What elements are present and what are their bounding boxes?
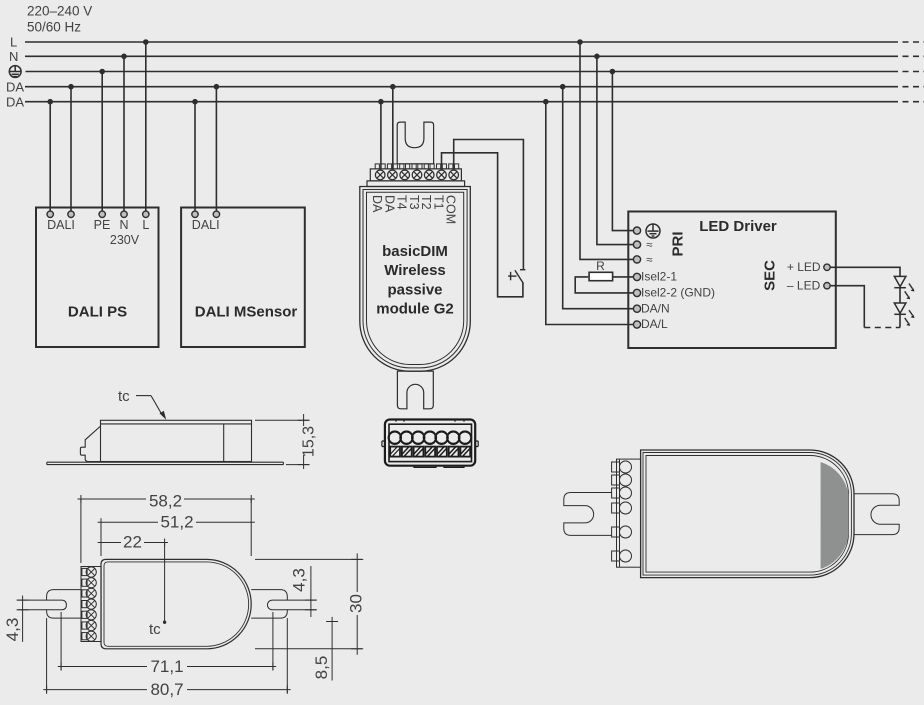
driver terminal labels — [641, 270, 715, 332]
svg-text:71,1: 71,1 — [150, 657, 183, 676]
junction dot — [99, 69, 105, 75]
perspective view body — [641, 450, 854, 578]
dimension 8,5 — [312, 617, 338, 681]
junction dot — [68, 84, 74, 90]
svg-text:51,2: 51,2 — [160, 513, 193, 532]
tc arrow — [136, 396, 166, 420]
wire bus L — [25, 41, 924, 43]
pushbutton S — [508, 270, 525, 284]
junction dot — [192, 99, 198, 105]
PE earth symbol — [9, 66, 22, 78]
perspective terminal block — [617, 459, 641, 567]
top view terminal block — [81, 567, 101, 642]
module top mounting tab — [397, 122, 433, 164]
svg-text:Isel2-1: Isel2-1 — [641, 270, 677, 284]
module terminal block — [367, 169, 465, 187]
svg-text:L: L — [142, 218, 149, 232]
DALI MSensor box — [181, 208, 305, 348]
svg-text:PE: PE — [94, 218, 111, 232]
svg-text:+ LED: + LED — [787, 260, 821, 274]
top view body — [101, 559, 251, 648]
junction dot — [610, 69, 616, 75]
svg-text:15,3: 15,3 — [301, 426, 318, 457]
svg-text:4,3: 4,3 — [3, 618, 22, 642]
svg-text:tc: tc — [149, 621, 161, 638]
svg-text:58,2: 58,2 — [149, 491, 182, 510]
svg-text:Wireless: Wireless — [384, 262, 446, 279]
perspective left tab — [564, 493, 612, 536]
svg-text:4,3: 4,3 — [289, 568, 308, 592]
side view left cap — [80, 426, 100, 462]
svg-text:T3: T3 — [407, 195, 421, 210]
LED D2 — [894, 303, 914, 326]
svg-text:DALI PS: DALI PS — [68, 304, 127, 321]
junction dot — [390, 84, 396, 90]
driver output terminals — [824, 264, 830, 289]
wire led2 down — [899, 314, 901, 327]
svg-text:DA: DA — [370, 195, 384, 213]
module body basicDIM — [360, 187, 471, 372]
svg-text:DALI MSensor: DALI MSensor — [195, 304, 298, 321]
LED D1 — [894, 276, 914, 299]
svg-text:R: R — [596, 259, 605, 273]
resistor R — [575, 259, 633, 293]
svg-text:230V: 230V — [110, 233, 140, 247]
perspective shaded end — [821, 462, 849, 569]
wire module T1 to switch — [442, 153, 523, 297]
dimension 80,7 — [43, 618, 290, 699]
driver terminals — [633, 227, 640, 328]
wire DALI PS N to bus N — [123, 56, 125, 211]
driver LED output labels — [787, 260, 821, 292]
svg-text:220–240 V: 220–240 V — [27, 4, 92, 19]
wire bus PE — [26, 71, 924, 73]
wire bus N to driver N — [597, 56, 634, 244]
wire bus DA2 — [25, 101, 924, 103]
wire module COM to switch — [454, 140, 524, 270]
module terminal entries — [375, 164, 459, 169]
wire -LED to chain — [830, 286, 865, 328]
top view left tab — [47, 590, 81, 619]
module terminal screws — [375, 170, 458, 180]
dimension 51,2 — [98, 513, 255, 556]
perspective right tab — [854, 494, 899, 535]
svg-text:DA: DA — [382, 195, 396, 213]
wire bus L to driver L — [580, 42, 633, 259]
driver earth symbol — [646, 224, 660, 238]
junction dot — [214, 84, 220, 90]
module bottom tab — [397, 371, 433, 409]
junction dot — [560, 84, 566, 90]
wire bus DA1 to driver DA/N — [563, 87, 634, 309]
module title — [376, 243, 454, 318]
side view foot strip — [47, 462, 284, 464]
wire bus DA2 to driver DA/L — [546, 102, 634, 325]
wire DALI PS PE to bus PE — [101, 72, 103, 212]
terminal block front view — [382, 420, 478, 468]
dimension 15,3 — [255, 414, 318, 469]
top view block screws — [82, 567, 96, 641]
svg-text:30: 30 — [347, 594, 366, 613]
svg-text:passive: passive — [387, 281, 442, 298]
svg-text:L: L — [10, 35, 17, 50]
wire MSensor da- to bus DA2 — [194, 102, 196, 211]
wire module DA+ to bus DA1 — [392, 87, 394, 169]
DALI MSensor terminals — [192, 211, 220, 217]
perspective screws — [612, 461, 632, 562]
svg-text:DA/L: DA/L — [641, 317, 668, 331]
svg-text:80,7: 80,7 — [150, 680, 183, 699]
front view screws — [389, 431, 472, 443]
svg-text:T2: T2 — [419, 195, 433, 210]
dimension 71,1 — [58, 612, 276, 676]
wire bus DA1 — [25, 86, 924, 88]
front view hatched entries — [390, 447, 470, 457]
svg-text:DA/N: DA/N — [641, 301, 670, 315]
svg-text:≈: ≈ — [646, 254, 652, 266]
svg-text:module G2: module G2 — [376, 301, 454, 318]
dimension 4,3 right — [287, 566, 317, 617]
junction dot — [47, 99, 53, 105]
wire DALI PS da- to bus DA2 — [49, 102, 51, 211]
wire led1 to led2 — [899, 288, 901, 303]
wire MSensor da+ to bus DA1 — [215, 87, 217, 211]
svg-text:DA: DA — [6, 79, 24, 94]
junction dot — [577, 39, 583, 45]
module pin labels — [370, 195, 458, 224]
dimension 22 — [98, 532, 168, 620]
junction dot — [594, 54, 600, 60]
DALI PS terminal labels — [47, 218, 149, 247]
svg-text:PRI: PRI — [670, 231, 687, 256]
svg-text:22: 22 — [123, 532, 142, 551]
tc center point — [149, 621, 166, 639]
wire DALI PS L to bus L — [145, 42, 147, 211]
side view body — [101, 420, 252, 461]
DALI PS box — [36, 208, 159, 348]
wire bus N — [25, 55, 924, 57]
dimension 58,2 — [78, 491, 255, 563]
svg-text:LED Driver: LED Driver — [699, 218, 777, 235]
dashed continuation wire — [864, 327, 900, 329]
LED Driver box — [628, 212, 836, 349]
svg-text:DALI: DALI — [192, 218, 220, 232]
svg-text:Isel2-2 (GND): Isel2-2 (GND) — [641, 286, 715, 300]
wire module DA- to bus DA2 — [380, 102, 382, 169]
svg-text:DA: DA — [6, 94, 24, 109]
svg-text:SEC: SEC — [762, 260, 779, 291]
svg-text:basicDIM: basicDIM — [382, 243, 448, 260]
side view drawing — [47, 420, 284, 464]
dimension 4,3 left — [3, 596, 47, 642]
junction dot — [121, 54, 127, 60]
junction dot — [143, 39, 149, 45]
svg-text:– LED: – LED — [787, 278, 821, 292]
DALI PS terminals — [47, 211, 149, 217]
svg-text:DALI: DALI — [47, 218, 75, 232]
top view right tab — [251, 590, 287, 619]
junction dot — [543, 99, 549, 105]
svg-text:T4: T4 — [395, 195, 409, 210]
svg-text:50/60 Hz: 50/60 Hz — [27, 20, 81, 35]
svg-text:T1: T1 — [432, 195, 446, 210]
svg-text:N: N — [119, 218, 128, 232]
driver AC symbols — [646, 240, 652, 267]
svg-text:8,5: 8,5 — [312, 656, 331, 680]
dimension 30 — [255, 553, 366, 654]
top view drawing (dimensioned) — [47, 559, 252, 648]
wire DALI PS da+ to bus DA1 — [70, 87, 72, 211]
svg-text:N: N — [9, 49, 18, 64]
svg-text:≈: ≈ — [646, 240, 652, 252]
svg-text:COM: COM — [444, 195, 458, 224]
junction dot — [378, 99, 384, 105]
wire bus PE to driver earth — [612, 72, 633, 231]
wire +LED to led chain — [830, 267, 900, 276]
svg-text:tc: tc — [118, 388, 130, 405]
